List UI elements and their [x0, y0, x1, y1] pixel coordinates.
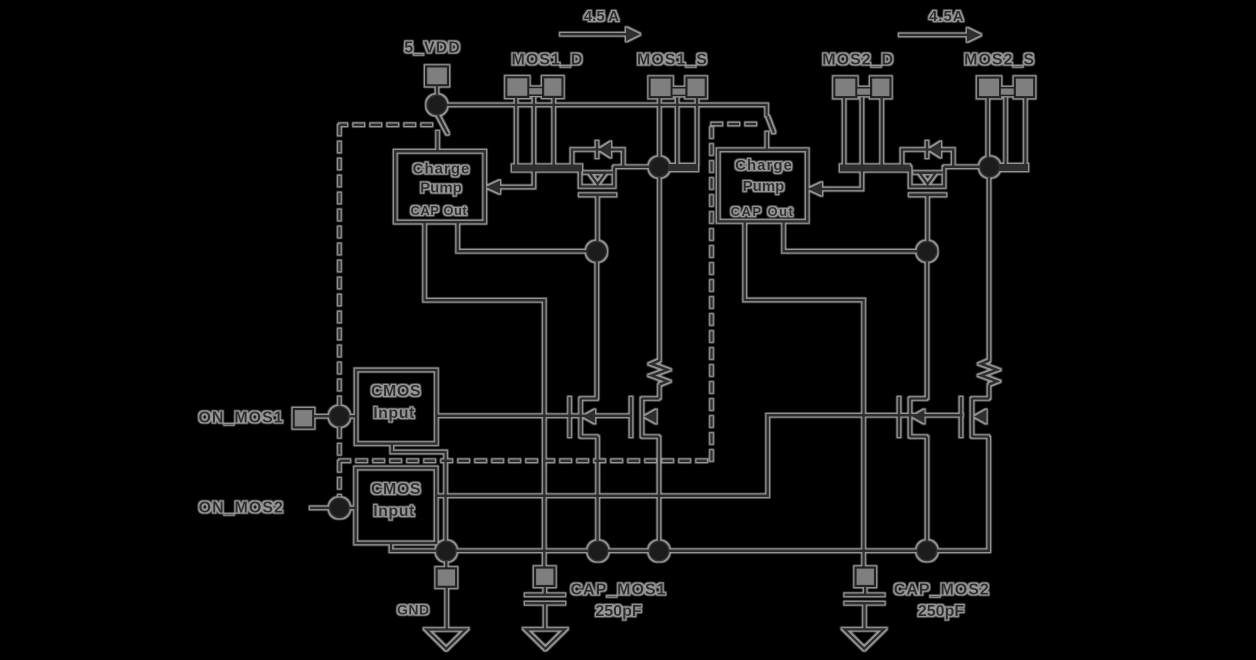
switch S2 blade [768, 116, 774, 133]
wires MOS2_D legs [844, 97, 882, 165]
dashed control net top left [339, 124, 432, 127]
wire CAP_MOS1 pad to capacitor C1 [544, 586, 547, 594]
wire power FET Q1 gate lead [596, 195, 599, 242]
node ON_MOS1 [330, 407, 350, 427]
wire capacitor C1 to ground symbol [544, 603, 547, 629]
wires MOS2_S legs [988, 97, 1026, 164]
capacitor C2 [845, 595, 885, 603]
node ground rail ch1 gate leg [588, 541, 608, 561]
wire 5_VDD pad to node [436, 85, 439, 95]
wire ch2 gate node down to driver FET C [926, 261, 929, 399]
current arrowhead ch1 [626, 27, 640, 41]
svg-text:MOS2_S: MOS2_S [964, 52, 1035, 69]
ground symbol C2 [844, 629, 884, 649]
wire MOS1_D sense to charge pump 1 [500, 171, 534, 187]
svg-text:Pump: Pump [743, 178, 785, 195]
charge pump U1 box [395, 151, 484, 222]
wire ON_MOS2 stub [310, 507, 330, 510]
node ground rail at GND [437, 541, 457, 561]
wire ch2 source node down to resistor R2 [988, 177, 991, 362]
terminal pad CAP_MOS1 [535, 568, 555, 587]
CMOS input 1 box [356, 370, 436, 444]
capacitor C1 [525, 595, 565, 603]
arrowhead into charge pump 1 [486, 180, 500, 193]
charge pump U2 box [718, 150, 807, 222]
wire charge pump 1 CAP OUT to CAP_MOS1 [425, 222, 545, 567]
svg-text:MOS2_D: MOS2_D [822, 52, 894, 69]
switch S1 blade [438, 115, 448, 135]
dashed control net bottom horizontal [339, 460, 711, 463]
svg-text:ON_MOS1: ON_MOS1 [198, 409, 283, 426]
wire power FET Q2 source to MOS2_S node [944, 166, 981, 169]
wire CMOS input 2 to ground rail [391, 543, 436, 551]
current arrow ch2 [899, 34, 967, 37]
node ch1 gate [587, 242, 607, 262]
terminal pad CAP_MOS2 [856, 568, 876, 587]
dashed control net left lower vertical [338, 427, 341, 497]
svg-text:MOS1_S: MOS1_S [637, 52, 708, 69]
terminal pad GND [437, 568, 457, 587]
driver FET C ch2 [899, 397, 927, 437]
arrowhead into charge pump 2 [808, 182, 822, 195]
svg-text:4.5 A: 4.5 A [584, 8, 619, 25]
current arrow ch1 [560, 33, 626, 36]
wire power FET Q2 gate lead [926, 195, 929, 242]
ground symbol C1 [526, 629, 566, 649]
wire switch S1 to charge pump 1 [436, 131, 439, 151]
bus bar MOS1_S source [659, 164, 698, 171]
wire capacitor C2 to ground symbol [863, 603, 866, 629]
dashed control net top right [712, 123, 758, 126]
wire driver FET A source to rail [596, 437, 599, 551]
ground symbol GND [426, 630, 466, 650]
wire GND pad to ground symbol [445, 587, 448, 630]
pin pads MOS1_D [506, 77, 562, 97]
node 5_VDD junction [427, 95, 447, 115]
CMOS input 2 box [356, 468, 437, 543]
svg-text:250pF: 250pF [595, 603, 641, 620]
wire ON_MOS2 node to CMOS input 2 [349, 507, 356, 510]
wire MOS2_D sense to charge pump 2 [822, 171, 862, 189]
dashed control net right vertical [710, 124, 713, 461]
wire resistor R2 to driver FET D [988, 385, 991, 399]
svg-text:4.5A: 4.5A [929, 8, 965, 25]
wire GND node to pad [445, 560, 448, 568]
driver FET A ch1 [570, 397, 598, 437]
driver FET B ch1 [631, 397, 659, 437]
svg-text:CAP Out: CAP Out [411, 203, 468, 218]
svg-text:MOS1_D: MOS1_D [512, 52, 584, 69]
terminal pad 5_VDD [426, 66, 448, 85]
node ground rail ch1 source leg [649, 541, 669, 561]
terminal pad ON_MOS1 [294, 409, 314, 428]
wire charge pump 1 gate drive out [458, 222, 587, 251]
bus bar MOS2_D drain [840, 165, 910, 172]
ground rail [446, 437, 989, 551]
wire CMOS input 1 to ground rail [392, 444, 446, 542]
svg-text:5_VDD: 5_VDD [404, 40, 461, 57]
svg-text:CMOS: CMOS [371, 383, 421, 400]
svg-text:Input: Input [373, 503, 415, 520]
wire ON_MOS1 node to CMOS input 1 [349, 415, 356, 418]
power MOSFET Q1 with body diode [572, 141, 623, 195]
dashed control net left vertical [338, 125, 341, 406]
pin pads MOS2_S [978, 78, 1034, 98]
wire 5_VDD supply rail [447, 105, 767, 116]
resistor R2 [981, 361, 997, 385]
wire resistor R1 to driver FET B [658, 385, 661, 399]
resistor R1 [651, 361, 667, 385]
wires MOS1_D legs [516, 97, 554, 165]
svg-text:Input: Input [373, 405, 415, 422]
svg-text:CMOS: CMOS [371, 481, 421, 498]
wires MOS1_S legs [659, 97, 697, 164]
bus bar MOS1_D drain [512, 165, 582, 172]
wire ch1 gate bus from CMOS input 1 [436, 414, 631, 417]
node ch2 gate [917, 242, 937, 262]
wire ON_MOS1 pad to node [313, 415, 330, 418]
wire driver FET B source to rail [658, 437, 661, 551]
svg-text:CAP_MOS1: CAP_MOS1 [570, 582, 666, 599]
wire driver FET C source to rail [926, 437, 929, 551]
svg-text:CAP_MOS2: CAP_MOS2 [894, 582, 990, 599]
pin pads MOS1_S [650, 78, 706, 98]
power MOSFET Q2 with body diode [902, 141, 953, 195]
node ch1 source [649, 157, 669, 177]
node ON_MOS2 [330, 498, 350, 518]
node ground rail ch2 gate leg [917, 541, 937, 561]
node ch2 source [980, 157, 1000, 177]
wire ch1 source node down to resistor R1 [658, 177, 661, 362]
wire power FET Q1 source to MOS1_S node [614, 166, 650, 169]
wire switch S2 to charge pump 2 [766, 132, 769, 150]
wire charge pump 2 gate drive out [784, 221, 918, 251]
svg-text:Charge: Charge [413, 161, 471, 178]
wire CAP_MOS2 pad to capacitor C2 [864, 586, 867, 594]
svg-text:CAP Out: CAP Out [731, 204, 795, 219]
svg-text:Charge: Charge [735, 157, 793, 174]
svg-text:ON_MOS2: ON_MOS2 [199, 500, 284, 517]
current arrowhead ch2 [967, 28, 981, 42]
svg-text:Pump: Pump [420, 180, 462, 197]
wire ch1 gate node down to driver FET A [596, 261, 599, 399]
pin pads MOS2_D [834, 78, 890, 98]
wire charge pump 2 CAP OUT to CAP_MOS2 [745, 221, 864, 567]
svg-text:GND: GND [397, 602, 430, 618]
bus bar MOS2_S source [990, 164, 1029, 171]
wire CMOS input 2 gate bus to ch2 [436, 415, 963, 496]
svg-text:250pF: 250pF [918, 603, 964, 620]
driver FET D ch2 [961, 397, 989, 437]
